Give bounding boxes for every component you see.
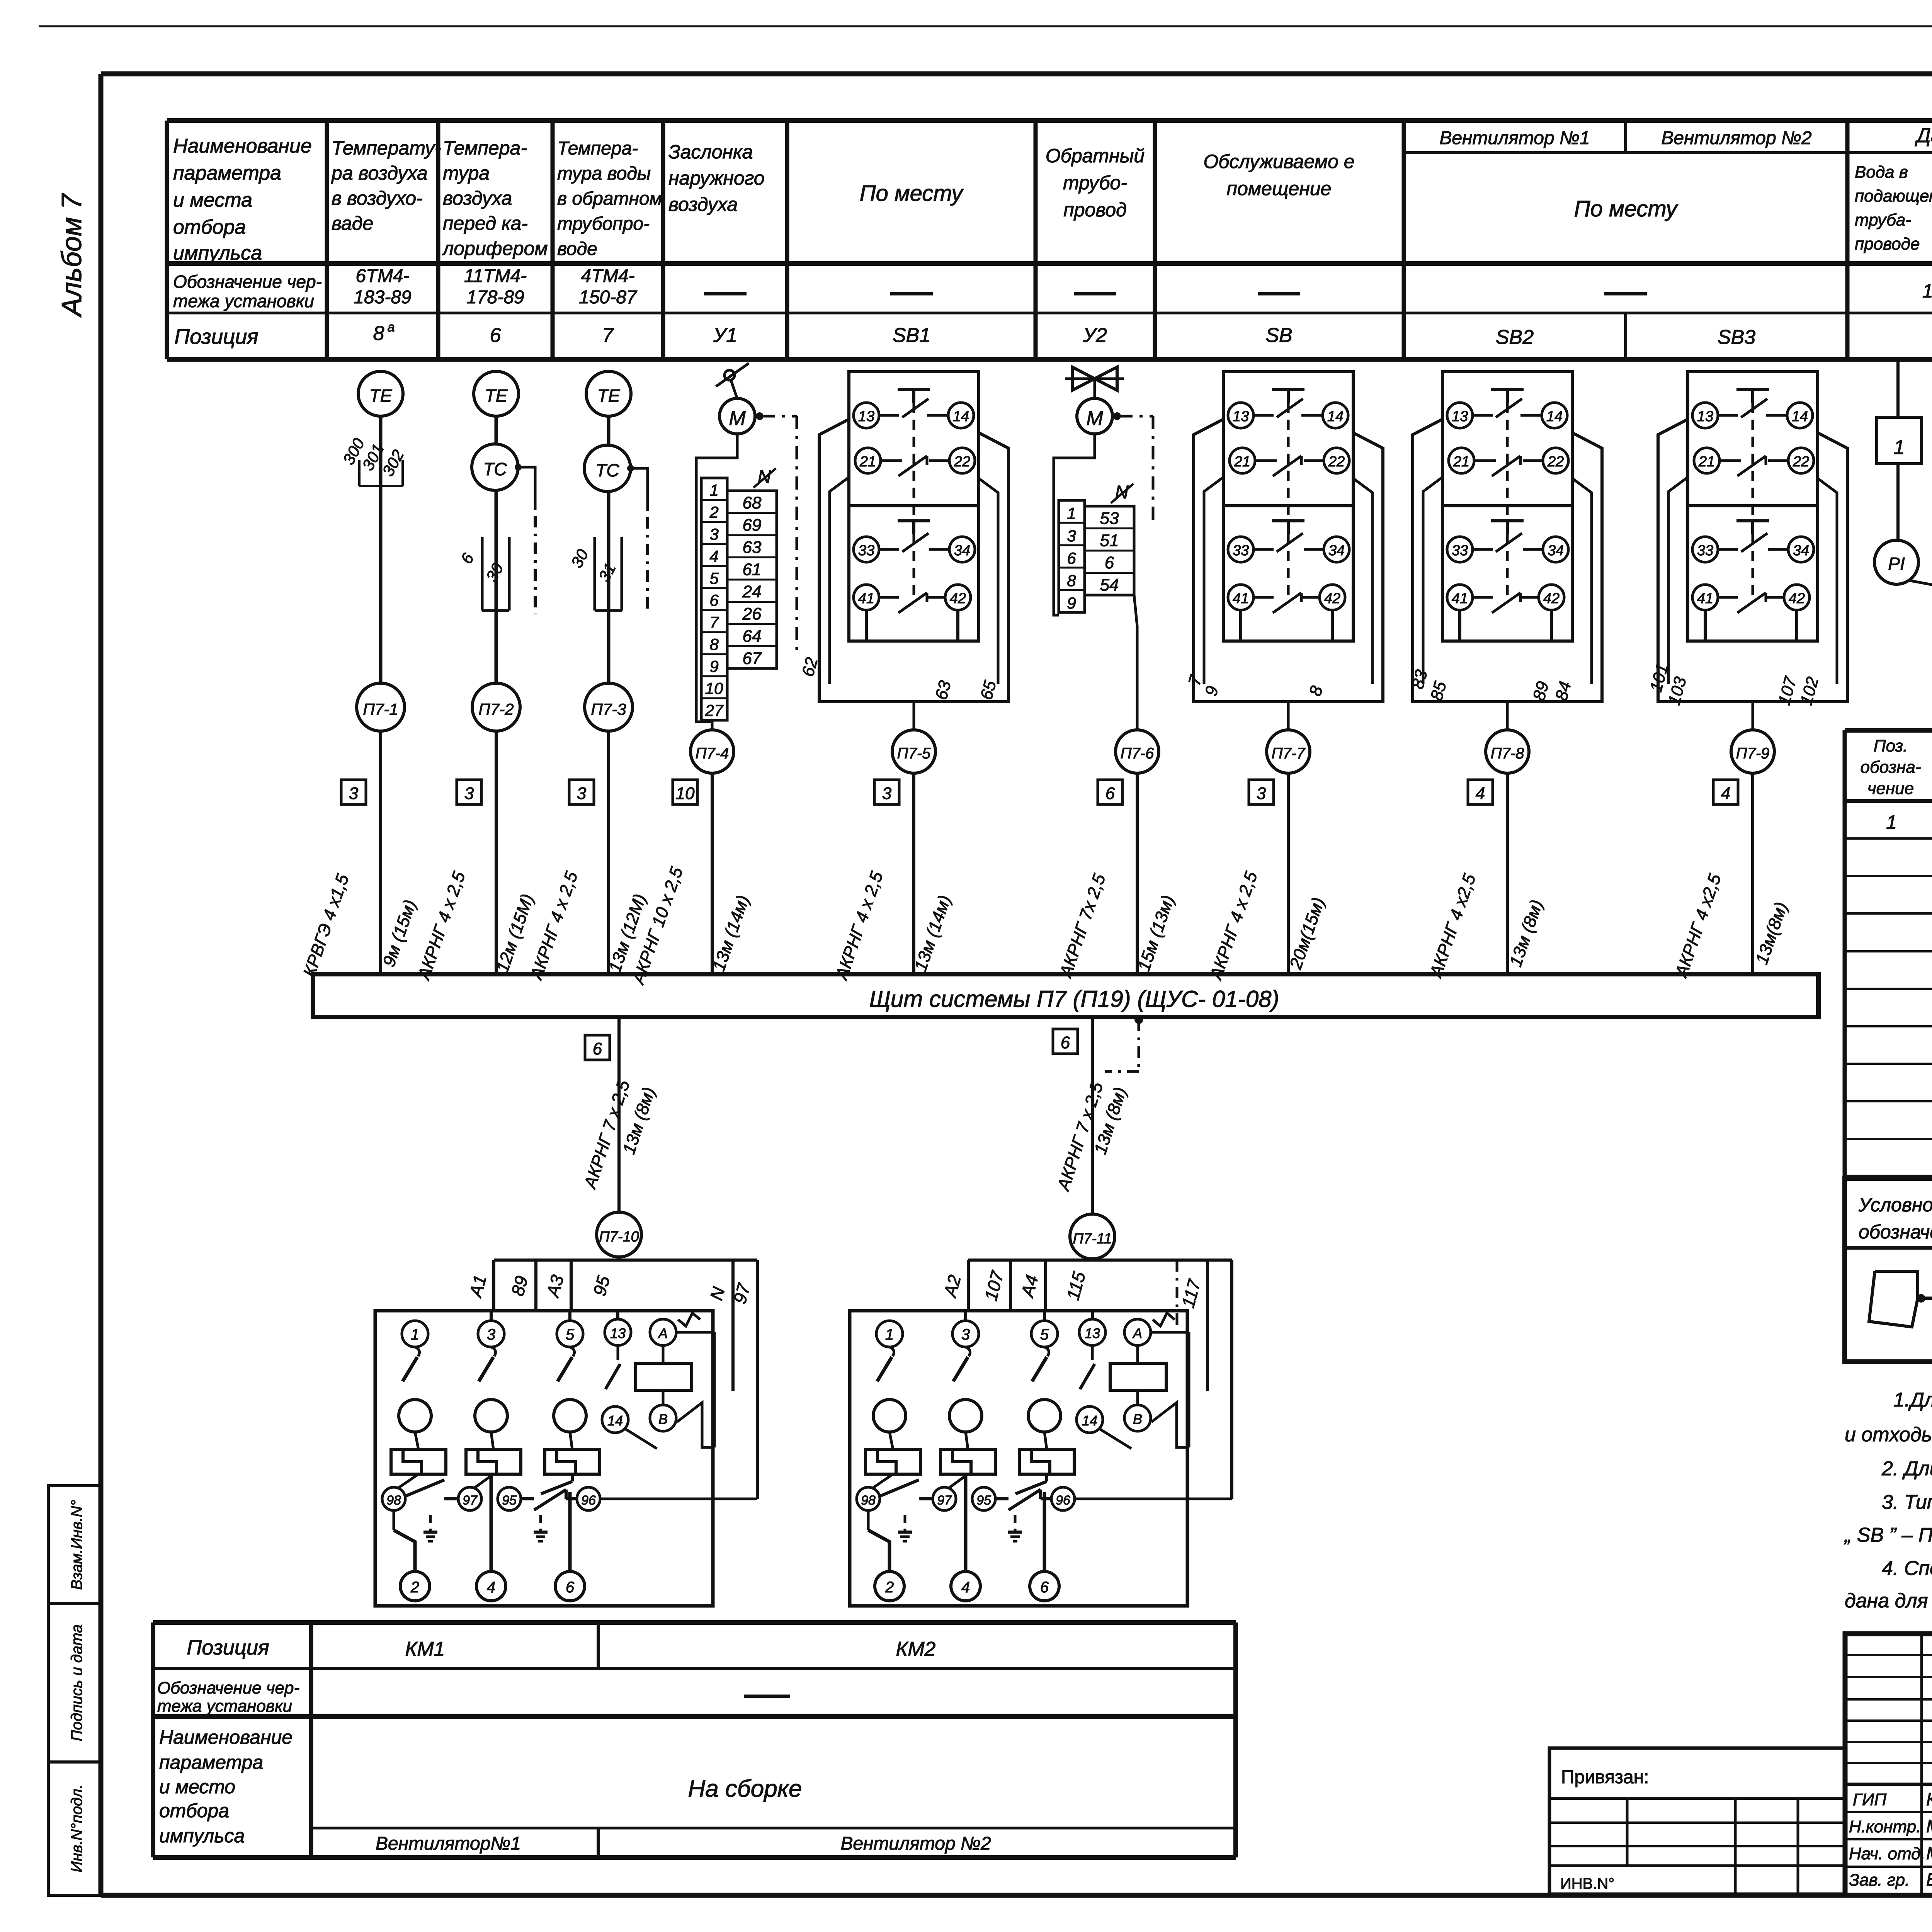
svg-text:7: 7 [602, 324, 614, 347]
svg-text:трубопро-: трубопро- [557, 214, 650, 234]
svg-text:П7-8: П7-8 [1491, 745, 1525, 762]
cable АКРНГ 4х2,5 (П7-5) [831, 773, 955, 983]
svg-text:отбора: отбора [173, 216, 246, 238]
svg-text:ИНВ.N°: ИНВ.N° [1560, 1875, 1614, 1892]
svg-text:Малахов: Малахов [1926, 1843, 1932, 1863]
svg-text:перед ка-: перед ка- [443, 213, 528, 234]
svg-text:Н.контр.: Н.контр. [1849, 1817, 1921, 1836]
svg-text:П7-10: П7-10 [599, 1229, 639, 1245]
sensor TC pos.6 [472, 444, 535, 614]
title block [1845, 1634, 1932, 1895]
svg-text:Вода в: Вода в [1855, 163, 1908, 182]
cable АКРНГ 4х2,5 (П7-7) [1206, 773, 1328, 983]
svg-text:Обозначение чер-: Обозначение чер- [157, 1679, 299, 1697]
svg-text:Вентилятор №2: Вентилятор №2 [1661, 128, 1811, 148]
legend table [1845, 1179, 1932, 1362]
svg-text:КМ2: КМ2 [896, 1638, 936, 1660]
svg-text:трубо-: трубо- [1063, 172, 1127, 194]
svg-text:Наименование: Наименование [173, 135, 312, 157]
cable АКРНГ 7х2,5 (П7-11) [1053, 1017, 1130, 1214]
svg-text:Подпись и дата: Подпись и дата [68, 1624, 85, 1742]
notes text [1844, 1389, 1932, 1612]
svg-text:П7-6: П7-6 [1121, 745, 1155, 762]
cable АКРНГ 4х2,5 (П7-9) [1671, 773, 1791, 981]
svg-text:1.Длины кабелей даны с уче: 1.Длины кабелей даны с учетом 6% надбавк… [1893, 1389, 1932, 1411]
svg-text:и отходы согласно письма Г: и отходы согласно письма Госстроя СССР о… [1845, 1423, 1932, 1446]
svg-text:69: 69 [743, 516, 762, 535]
svg-text:54: 54 [1100, 576, 1119, 595]
svg-text:обозна-: обозна- [1861, 758, 1921, 777]
sensor TC pos.7 [584, 445, 648, 614]
svg-text:Заслонка: Заслонка [668, 141, 753, 163]
svg-text:Обратный: Обратный [1046, 145, 1145, 167]
svg-text:П7-9: П7-9 [1736, 745, 1770, 762]
svg-text:П7-7: П7-7 [1272, 745, 1306, 762]
svg-text:6: 6 [1105, 553, 1114, 572]
svg-text:6: 6 [593, 1039, 602, 1058]
pressure device pos.1 (supply line) [1877, 361, 1922, 540]
svg-text:На сборке: На сборке [688, 1776, 802, 1802]
valve actuator У2 [1065, 367, 1153, 526]
svg-text:Позиция: Позиция [187, 1636, 269, 1659]
transmitter П7-1 [357, 683, 405, 731]
svg-text:ваде: ваде [332, 213, 373, 234]
svg-text:67: 67 [743, 649, 762, 668]
push-button station SB [1185, 372, 1383, 730]
svg-text:П7-5: П7-5 [897, 745, 931, 762]
svg-text:воде: воде [557, 239, 597, 259]
svg-text:тежа установки: тежа установки [157, 1697, 292, 1716]
cable КРВГЭ 4х1,5 (П7-1) [299, 731, 420, 979]
svg-text:а: а [388, 320, 395, 335]
vertical label Альбом 7 [56, 193, 87, 318]
svg-text:Условное: Условное [1858, 1194, 1932, 1216]
terminal strip У2 [1054, 434, 1137, 730]
svg-text:Температу-: Температу- [332, 137, 441, 159]
cable АКРНГ 4х2,5 (П7-3) [526, 731, 650, 983]
svg-text:в воздухо-: в воздухо- [332, 187, 423, 209]
svg-text:П7-2: П7-2 [478, 700, 514, 718]
push-button station SB2 [1408, 372, 1602, 730]
svg-text:ра воздуха: ра воздуха [331, 162, 428, 184]
transmitter П7-8 [1486, 730, 1529, 773]
svg-text:обозначение: обозначение [1859, 1221, 1932, 1243]
sensor TE pos.7 [586, 371, 631, 444]
svg-text:в обратном: в обратном [557, 189, 662, 209]
svg-text:ТЕ: ТЕ [485, 386, 508, 406]
transmitter П7-5 [892, 730, 935, 773]
transmitter П7-2 [472, 490, 520, 731]
svg-text:П7-4: П7-4 [696, 745, 729, 762]
svg-text:3. Тип электроаппаратуры:: 3. Тип электроаппаратуры: „ SB1 – SB3 ” … [1882, 1491, 1932, 1514]
svg-text:3: 3 [349, 784, 359, 803]
sensor TE pos.6 [474, 371, 519, 443]
svg-text:тура: тура [443, 162, 490, 184]
svg-text:7: 7 [709, 613, 719, 631]
svg-text:27: 27 [705, 701, 724, 719]
transmitter П7-9 [1731, 730, 1774, 773]
left margin stamp boxes [48, 1486, 101, 1895]
svg-text:ТС: ТС [595, 460, 619, 480]
magnetic starter КМ2 [850, 1260, 1232, 1606]
terminal strip У1 [696, 434, 777, 730]
bottom position table [153, 1622, 1236, 1857]
svg-text:6ТМ4-: 6ТМ4- [355, 266, 409, 286]
svg-text:ГИП: ГИП [1853, 1790, 1886, 1809]
svg-text:1: 1 [709, 481, 718, 499]
svg-text:4: 4 [709, 547, 718, 565]
svg-text:10: 10 [676, 784, 695, 803]
svg-text:9: 9 [709, 657, 718, 675]
svg-text:63: 63 [743, 538, 762, 557]
svg-text:SB1: SB1 [893, 324, 930, 347]
svg-text:SB2: SB2 [1496, 326, 1534, 349]
null-core dash-dot link at panel [1105, 1015, 1143, 1071]
svg-text:Щит системы П7 (П19) (ЩУС- 0: Щит системы П7 (П19) (ЩУС- 01-08) [869, 986, 1279, 1012]
transmitter П7-7 [1267, 730, 1310, 773]
svg-text:П7-3: П7-3 [591, 700, 626, 718]
binding table (Привязан) [1549, 1748, 1845, 1894]
svg-text:ТС: ТС [483, 459, 507, 479]
svg-text:лорифером: лорифером [442, 238, 548, 259]
svg-text:Инв.N°подл.: Инв.N°подл. [68, 1784, 85, 1872]
svg-text:отбора: отбора [159, 1800, 229, 1821]
svg-text:8: 8 [1067, 571, 1076, 590]
svg-text:1: 1 [1067, 504, 1076, 522]
svg-text:труба-: труба- [1855, 211, 1911, 230]
svg-text:У1: У1 [713, 324, 737, 347]
transmitter П7-10 [597, 1212, 641, 1257]
svg-text:тура воды: тура воды [557, 163, 651, 184]
push-button station SB3 [1646, 372, 1847, 730]
svg-text:КМ1: КМ1 [405, 1638, 445, 1660]
svg-text:SB3: SB3 [1718, 326, 1755, 349]
svg-text:Зав. гр.: Зав. гр. [1849, 1871, 1910, 1889]
cable АКРНГ 7х2,5 (П7-6) [1055, 773, 1178, 981]
cable АКРНГ 7х2,5 (П7-10) [580, 1017, 659, 1212]
magnetic starter КМ1 [375, 1260, 757, 1606]
svg-text:проводе: проводе [1855, 235, 1920, 253]
transmitter П7-4 [690, 730, 734, 773]
svg-text:Позиция: Позиция [174, 325, 258, 349]
svg-text:импульса: импульса [159, 1825, 245, 1847]
svg-text:10: 10 [705, 679, 723, 697]
svg-text:4ТМ4-: 4ТМ4- [581, 266, 634, 286]
wire markers 300 301 302 [339, 435, 407, 486]
svg-text:ТЕ: ТЕ [369, 386, 393, 406]
svg-text:подающем: подающем [1855, 187, 1932, 206]
svg-text:Вентилятор №2: Вентилятор №2 [840, 1833, 991, 1854]
svg-text:импульса: импульса [173, 242, 262, 264]
svg-text:Давление: Давление [1915, 124, 1932, 147]
svg-text:Вентилятор№1: Вентилятор№1 [376, 1833, 521, 1854]
specification table [1845, 730, 1932, 1177]
svg-text:М: М [1086, 407, 1103, 430]
svg-text:3: 3 [464, 784, 474, 803]
svg-text:5: 5 [709, 569, 719, 587]
svg-text:М: М [729, 407, 746, 430]
svg-text:наружного: наружного [668, 167, 765, 189]
sensor TE pos.8a [358, 371, 403, 683]
svg-text:Привязан:: Привязан: [1561, 1767, 1649, 1787]
pressure gauge PI (supply) [1874, 540, 1932, 600]
svg-text:3: 3 [1067, 527, 1076, 545]
svg-text:178-89: 178-89 [466, 287, 524, 308]
svg-text:6: 6 [490, 324, 501, 347]
wire markers 30 31 [567, 537, 622, 611]
svg-text:По месту: По месту [860, 181, 964, 206]
svg-text:Темпера-: Темпера- [443, 137, 527, 159]
svg-text:Темпера-: Темпера- [557, 138, 638, 159]
svg-text:64: 64 [743, 627, 762, 646]
svg-text:183-89: 183-89 [354, 287, 411, 308]
push-button station SB1 [798, 372, 1009, 730]
wire markers 6 30 [457, 537, 509, 611]
svg-text:1: 1 [1886, 811, 1897, 833]
svg-text:3: 3 [709, 525, 718, 543]
svg-text:параметра: параметра [159, 1752, 263, 1773]
svg-text:провод: провод [1063, 199, 1127, 221]
svg-text:3: 3 [577, 784, 587, 803]
svg-text:параметра: параметра [173, 162, 281, 184]
cable АКРНГ 10х2,5 (П7-4) [628, 773, 753, 988]
svg-text:1: 1 [1894, 436, 1905, 459]
svg-text:3: 3 [1257, 784, 1266, 803]
transmitter П7-3 [585, 492, 633, 731]
svg-text:У2: У2 [1083, 324, 1107, 347]
cable АКРНГ 4х2,5 (П7-2) [413, 731, 537, 983]
svg-text:SB: SB [1265, 324, 1292, 347]
svg-text:6: 6 [1105, 784, 1115, 803]
svg-text:Обозначение чер-: Обозначение чер- [173, 272, 322, 292]
svg-text:8: 8 [709, 635, 719, 653]
svg-text:Обслуживаемо е: Обслуживаемо е [1203, 151, 1354, 172]
svg-text:Поз.: Поз. [1874, 736, 1908, 755]
svg-text:26: 26 [742, 605, 762, 624]
svg-text:4: 4 [1476, 784, 1485, 803]
svg-text:и места: и места [173, 189, 252, 211]
svg-text:4. Спецификация монтажных и: 4. Спецификация монтажных изделий и мате… [1882, 1557, 1932, 1580]
svg-text:П7-11: П7-11 [1073, 1231, 1112, 1247]
svg-text:„ SB ” – ПКЕ 222-2У2 .: „ SB ” – ПКЕ 222-2У2 . [1844, 1524, 1932, 1546]
svg-text:и место: и место [159, 1776, 235, 1798]
svg-text:6: 6 [1067, 549, 1076, 567]
svg-text:61: 61 [743, 560, 762, 579]
svg-text:6: 6 [1061, 1033, 1070, 1052]
svg-text:чение: чение [1867, 779, 1914, 798]
svg-text:Альбом 7: Альбом 7 [56, 193, 87, 318]
svg-text:Нач. отд.: Нач. отд. [1849, 1844, 1925, 1863]
svg-text:воздуха: воздуха [443, 187, 512, 209]
damper actuator У1 [716, 363, 797, 653]
svg-text:Блудова: Блудова [1926, 1869, 1932, 1889]
svg-text:8: 8 [373, 322, 384, 345]
transmitter П7-11 [1070, 1214, 1115, 1259]
svg-text:ТЕ: ТЕ [597, 386, 621, 406]
svg-text:24: 24 [742, 582, 762, 601]
svg-text:воздуха: воздуха [668, 194, 738, 215]
svg-text:2. Длины проводок в скобках: 2. Длины проводок в скобках для П19. [1881, 1458, 1932, 1480]
svg-text:9: 9 [1067, 594, 1076, 612]
svg-text:Вентилятор №1: Вентилятор №1 [1439, 128, 1590, 148]
header table texts [173, 124, 1932, 349]
svg-text:помещение: помещение [1227, 178, 1332, 199]
svg-text:По месту: По месту [1574, 196, 1679, 221]
svg-text:3: 3 [882, 784, 892, 803]
panel ЩУС-01-08 [313, 974, 1818, 1017]
svg-text:Малахов: Малахов [1926, 1816, 1932, 1836]
svg-text:51: 51 [1100, 531, 1119, 550]
svg-text:6: 6 [709, 591, 719, 609]
svg-text:53: 53 [1100, 509, 1119, 528]
svg-text:PI: PI [1888, 554, 1905, 574]
transmitter П7-6 [1116, 730, 1159, 773]
svg-text:4: 4 [1721, 784, 1730, 803]
svg-text:Взам.Инв.N°: Взам.Инв.N° [68, 1500, 85, 1590]
svg-text:Коростелев: Коростелев [1926, 1789, 1932, 1809]
legend symbol: null protective core [1869, 1269, 1932, 1331]
svg-text:68: 68 [743, 493, 762, 512]
cable АКРНГ 4х2,5 (П7-8) [1425, 773, 1547, 981]
svg-text:2: 2 [709, 503, 718, 521]
svg-text:150-87: 150-87 [579, 287, 638, 308]
svg-text:дана для П7.: дана для П7. [1845, 1590, 1932, 1612]
svg-text:11ТМ4-: 11ТМ4- [464, 266, 527, 286]
svg-text:1Б -225У: 1Б -225У [1922, 280, 1932, 302]
header table grid [167, 121, 1932, 359]
svg-text:П7-1: П7-1 [363, 700, 398, 718]
svg-text:тежа установки: тежа установки [173, 291, 314, 311]
svg-text:Наименование: Наименование [159, 1726, 293, 1748]
